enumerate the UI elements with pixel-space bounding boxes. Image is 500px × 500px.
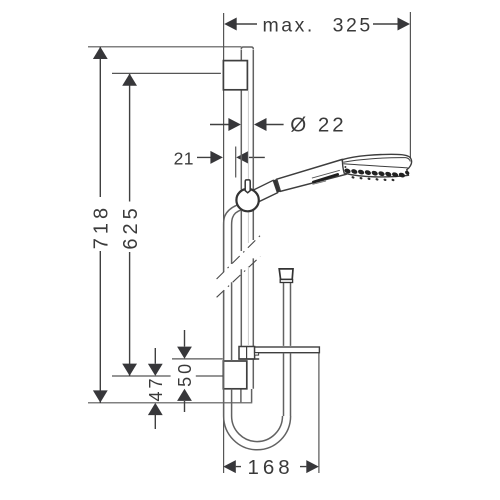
svg-text:50: 50	[175, 361, 195, 387]
svg-text:max. 325: max. 325	[263, 15, 373, 37]
svg-text:47: 47	[146, 375, 166, 401]
svg-text:21: 21	[174, 148, 194, 168]
svg-text:168: 168	[247, 456, 293, 479]
svg-text:625: 625	[120, 204, 142, 249]
svg-text:718: 718	[91, 204, 113, 249]
svg-text:Ø 22: Ø 22	[290, 114, 346, 137]
